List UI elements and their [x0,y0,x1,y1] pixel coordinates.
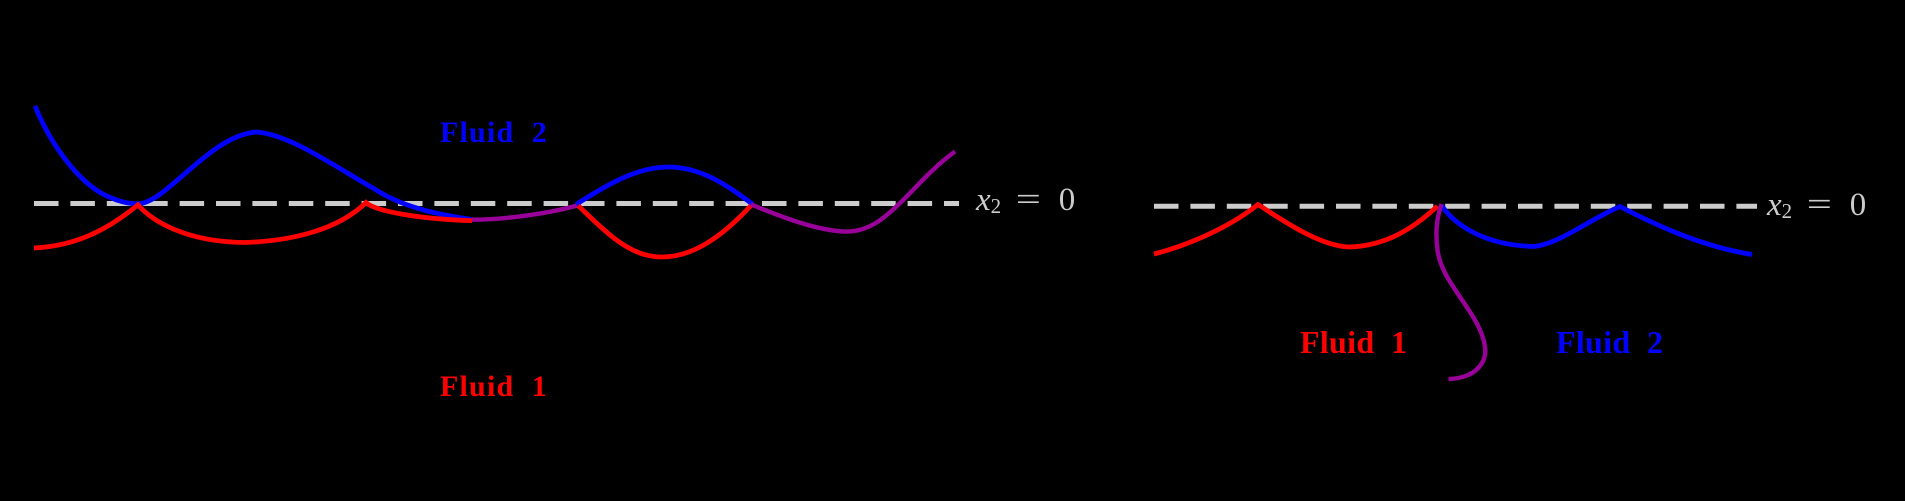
left purple merged segment 1 [472,205,581,220]
right dashed interface line x2=0 [1154,204,1757,209]
right purple plunging S-curve [1436,204,1485,379]
left blue hump 2 [576,167,753,205]
label Fluid 2 (left plot) [440,116,548,150]
right red curve Fluid 1: rise, cusp, dip, rise to junction [1154,205,1438,255]
label Fluid 2 (right plot) [1556,324,1663,361]
left blue curve Fluid 2: steep descent, tangent touch, hump, S-descent to merge [35,106,472,220]
left red curve Fluid 1: rise to corner, dip, rise to cusp, descent to merge [34,203,472,249]
label x2 = 0 (right plot) [1767,187,1866,224]
label x2 = 0 (left plot) [976,182,1075,219]
label Fluid 1 (right plot) [1300,324,1407,361]
label Fluid 1 (left plot) [440,370,548,404]
left purple merged tail: dip then steep rise [751,152,955,232]
left red dip 2 [578,206,751,257]
left dashed interface line x2=0 [34,201,959,206]
right blue curve Fluid 2: fast dip, rise to cusp, descent [1442,205,1753,255]
